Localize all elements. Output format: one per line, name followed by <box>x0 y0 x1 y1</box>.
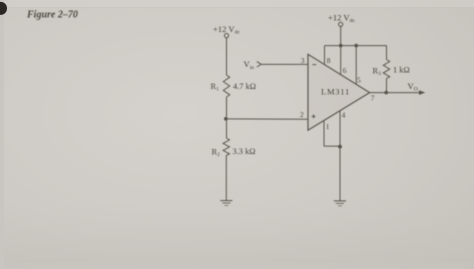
non-inverting input plus sign <box>312 114 316 118</box>
resistor R3 <box>383 60 389 79</box>
supply terminal circle (left rail) <box>224 34 228 38</box>
wire: R1 to divider node <box>226 97 228 138</box>
svg-text:7: 7 <box>371 94 375 103</box>
inverting input minus sign <box>312 64 316 66</box>
svg-text:4: 4 <box>342 110 346 119</box>
svg-text:Figure 2–70: Figure 2–70 <box>26 10 78 21</box>
wire: right supply down to rail <box>340 26 342 45</box>
svg-text:1 kΩ: 1 kΩ <box>393 66 410 75</box>
svg-text:1: 1 <box>326 122 330 131</box>
node: divider junction <box>224 117 228 121</box>
wire: Vin to pin 3 <box>262 63 309 65</box>
resistor R1 <box>223 75 229 97</box>
ground (right) <box>334 201 346 206</box>
wire: supply rail <box>325 45 387 47</box>
node: output junction <box>384 91 388 95</box>
svg-text:5: 5 <box>357 75 361 84</box>
node: rail junction at pin 5 wire <box>354 44 358 48</box>
svg-text:8: 8 <box>327 56 331 65</box>
svg-text:LM311: LM311 <box>321 86 350 96</box>
wire: output to Vo arrow <box>370 92 421 94</box>
supply terminal circle (right rail) <box>339 22 343 26</box>
node: pin1/pin4 junction <box>338 145 342 149</box>
ground (left) <box>220 201 232 206</box>
svg-text:2: 2 <box>300 110 304 119</box>
output arrowhead <box>419 90 425 95</box>
wire: pin 6 to rail <box>340 46 342 75</box>
svg-text:3: 3 <box>301 56 305 65</box>
wire: R2 to ground <box>225 155 227 200</box>
svg-text:6: 6 <box>343 66 347 75</box>
resistor R2 <box>223 138 229 156</box>
node: rail junction at pin 6 wire <box>339 44 343 48</box>
wire: left supply to R1 <box>226 38 228 75</box>
input source chevron <box>257 62 261 67</box>
wire: pin 1 down <box>323 121 325 147</box>
svg-text:4.7 kΩ: 4.7 kΩ <box>233 82 256 91</box>
wire: pin 8 to rail <box>324 46 326 65</box>
wire: pin 4 down to ground <box>339 111 341 201</box>
wire: rail corner down to R3 <box>386 46 388 60</box>
svg-text:3.3 kΩ: 3.3 kΩ <box>233 147 256 156</box>
wire: R3 to output node <box>386 79 388 93</box>
op-amp U1 LM311 triangle <box>308 54 370 130</box>
wire: divider node to pin 2 <box>226 118 308 120</box>
wire: pin 5 to rail <box>355 46 357 85</box>
wire: pin 1 over to pin 4 wire <box>324 145 340 147</box>
